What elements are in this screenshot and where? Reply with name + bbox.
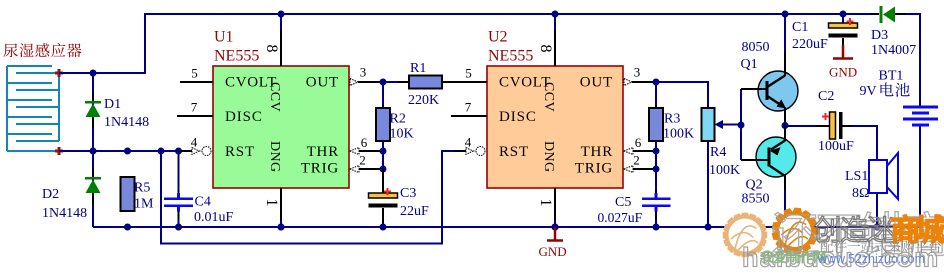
node C4 top <box>175 148 182 155</box>
svg-text:8Ω: 8Ω <box>852 186 869 201</box>
wire R3 column <box>655 82 657 108</box>
node RST drop <box>158 148 165 155</box>
R4 wiper arrow <box>715 120 724 129</box>
wire OUT2 to R4 <box>656 82 708 108</box>
svg-text:9V: 9V <box>860 84 877 99</box>
U1 pin 1 GND <box>280 188 282 220</box>
node D1 bottom <box>90 148 97 155</box>
svg-text:3: 3 <box>634 65 641 80</box>
svg-text:U1: U1 <box>214 29 234 46</box>
svg-text:1N4148: 1N4148 <box>42 206 87 221</box>
svg-text:C1: C1 <box>792 20 808 35</box>
node R4 bus <box>705 224 712 231</box>
U2 pin 1 GND <box>554 188 556 220</box>
svg-text:D3: D3 <box>871 28 888 43</box>
watermark text 我爱制作网 <box>761 251 826 263</box>
node U2 pin3 <box>653 79 660 86</box>
wire R4 bottom to bus <box>707 141 709 227</box>
svg-text:8: 8 <box>263 45 280 53</box>
op-amp/timer U1 NE555 body <box>213 66 349 188</box>
svg-text:GND: GND <box>829 65 857 80</box>
sensor terminal + bottom <box>55 147 63 155</box>
svg-text:R5: R5 <box>134 181 150 196</box>
potentiometer R4 <box>702 108 715 141</box>
svg-text:220uF: 220uF <box>792 37 828 52</box>
svg-text:8050: 8050 <box>742 40 770 55</box>
svg-text:R1: R1 <box>410 61 426 76</box>
ground symbol GND (U2) <box>547 227 563 241</box>
node C3 bottom <box>380 224 387 231</box>
capacitor C1 <box>842 14 844 23</box>
svg-text:100K: 100K <box>663 127 694 142</box>
svg-text:8550: 8550 <box>742 192 770 207</box>
svg-text:22uF: 22uF <box>400 204 429 219</box>
svg-text:R4: R4 <box>710 145 726 160</box>
node C5 bottom <box>653 224 660 231</box>
svg-text:7: 7 <box>191 100 198 115</box>
wire C2 to speaker <box>852 126 877 160</box>
svg-text:220K: 220K <box>408 93 439 108</box>
svg-text:6: 6 <box>635 135 642 150</box>
svg-text:4: 4 <box>465 135 472 150</box>
svg-text:8: 8 <box>537 45 554 53</box>
sensor label 尿湿感应器 <box>3 43 81 57</box>
svg-text:C5: C5 <box>615 195 631 210</box>
svg-text:NE555: NE555 <box>488 48 533 65</box>
diode D3 <box>871 13 879 15</box>
node U2 pin2 <box>653 166 660 173</box>
resistor R5 <box>121 177 135 211</box>
svg-text:OUT: OUT <box>580 75 613 91</box>
svg-text:1M: 1M <box>134 197 154 212</box>
wire battery minus <box>919 125 921 227</box>
svg-text:DISC: DISC <box>499 109 537 125</box>
U1 pin5 stub <box>180 81 213 83</box>
svg-text:7: 7 <box>465 100 472 115</box>
svg-text:5: 5 <box>191 66 198 81</box>
svg-text:TRIG: TRIG <box>301 161 339 177</box>
node U1 pin6 <box>380 148 387 155</box>
watermark pale large text 还不错商城 <box>772 211 944 255</box>
svg-text:6: 6 <box>361 135 368 150</box>
svg-text:CVOLT: CVOLT <box>499 75 551 91</box>
wire R2 to THR <box>382 141 384 169</box>
node U1 pin1 bus <box>278 224 285 231</box>
svg-text:BT1: BT1 <box>879 69 904 84</box>
wire U1 out to R1 <box>383 81 400 83</box>
svg-text:5: 5 <box>465 66 472 81</box>
wire VCC rail <box>93 14 871 73</box>
svg-text:www.52zhizuo.com: www.52zhizuo.com <box>817 252 925 266</box>
svg-text:OUT: OUT <box>306 75 339 91</box>
svg-text:C4: C4 <box>195 195 211 210</box>
wire rail D3 to battery <box>906 14 920 108</box>
wire RST bus <box>161 151 457 244</box>
svg-text:100uF: 100uF <box>818 139 854 154</box>
svg-text:U2: U2 <box>488 29 508 46</box>
battery BT1 <box>903 107 938 125</box>
wire sensor bottom / RST net <box>59 150 180 152</box>
wire R3 to THR/TRIG <box>655 141 657 169</box>
speaker LS1 <box>869 160 887 193</box>
urine sensor electrode comb <box>6 66 8 151</box>
diode D2 <box>85 177 101 180</box>
wire D2 to ground bus <box>92 151 94 227</box>
node Q2 collector bus <box>782 224 789 231</box>
svg-text:2: 2 <box>359 153 366 168</box>
resistor R3 <box>649 108 663 141</box>
node speaker bus <box>874 224 881 231</box>
svg-text:D2: D2 <box>42 187 59 202</box>
wire base column <box>740 89 742 160</box>
svg-text:GND: GND <box>539 244 567 259</box>
capacitor C5 <box>655 169 657 190</box>
transistor Q1 8050 <box>758 71 798 111</box>
watermark text 创造迷 <box>814 216 895 242</box>
node U2 pin6 <box>653 148 660 155</box>
resistor R2 <box>376 108 390 141</box>
svg-text:TRIG: TRIG <box>575 161 613 177</box>
wire R2 column <box>382 82 384 108</box>
svg-text:D1: D1 <box>104 97 121 112</box>
transistor Q2 8550 <box>756 137 796 177</box>
svg-text:0.01uF: 0.01uF <box>194 210 234 225</box>
watermark gear light <box>723 213 768 258</box>
capacitor C3 <box>382 169 384 193</box>
node U1 pin3 <box>380 79 387 86</box>
svg-text:2: 2 <box>633 153 640 168</box>
svg-text:Q2: Q2 <box>746 178 763 193</box>
svg-text:DNG: DNG <box>541 141 556 173</box>
capacitor C2 <box>816 125 830 127</box>
svg-text:3: 3 <box>360 65 367 80</box>
node U1 pin2 <box>380 166 387 173</box>
node R5 top <box>124 148 131 155</box>
svg-text:Q1: Q1 <box>741 57 758 72</box>
wire ground bus <box>93 226 920 228</box>
svg-text:RST: RST <box>225 144 255 160</box>
U1 pin 8 VCC <box>280 14 282 30</box>
svg-text:DNG: DNG <box>267 141 282 173</box>
svg-text:10K: 10K <box>390 127 414 142</box>
svg-text:DISC: DISC <box>225 109 263 125</box>
svg-text:1N4148: 1N4148 <box>104 115 149 130</box>
wire D1-D2 column <box>92 73 94 151</box>
node U2 pin1 bus <box>552 224 559 231</box>
node C4 bottom <box>175 224 182 231</box>
op-amp/timer U2 NE555 body <box>487 66 623 188</box>
svg-text:C2: C2 <box>818 89 834 104</box>
svg-text:100K: 100K <box>709 163 740 178</box>
watermark slogan 配件一站式采购平台 <box>821 240 941 253</box>
ground symbol GND (C1) <box>833 45 853 59</box>
svg-text:0.027uF: 0.027uF <box>598 210 643 225</box>
svg-text:LS1: LS1 <box>845 169 868 184</box>
node C1 rail <box>840 11 847 18</box>
U2 pin7 stub <box>451 115 487 117</box>
node base <box>738 122 745 129</box>
wire speaker to bus <box>876 193 878 227</box>
node R5 bottom <box>124 224 131 231</box>
wire sensor top to D1 node <box>59 72 93 74</box>
svg-text:C3: C3 <box>400 186 416 201</box>
sensor terminal + top <box>55 69 63 77</box>
U2 pin 8 VCC <box>554 14 556 30</box>
resistor R1 <box>398 81 409 83</box>
diode D1 <box>85 101 101 104</box>
svg-text:1: 1 <box>263 199 280 207</box>
watermark text 商城 orange <box>892 215 944 243</box>
svg-text:THR: THR <box>307 144 339 160</box>
svg-text:R2: R2 <box>390 112 406 127</box>
capacitor C4 <box>178 151 180 190</box>
U1 pin7 stub extension <box>181 115 213 117</box>
node emitters <box>782 122 789 129</box>
svg-text:THR: THR <box>581 144 613 160</box>
svg-text:R3: R3 <box>664 112 680 127</box>
svg-text:1: 1 <box>537 199 554 207</box>
wire emitters to C2 <box>785 125 818 127</box>
svg-text:CVOLT: CVOLT <box>225 75 277 91</box>
node Q1 collector rail <box>782 11 789 18</box>
svg-text:NE555: NE555 <box>214 48 259 65</box>
svg-text:RST: RST <box>499 144 529 160</box>
svg-text:1N4007: 1N4007 <box>871 43 916 58</box>
node D1 top <box>90 70 97 77</box>
svg-text:4: 4 <box>191 135 198 150</box>
watermark gear solid <box>772 208 819 255</box>
